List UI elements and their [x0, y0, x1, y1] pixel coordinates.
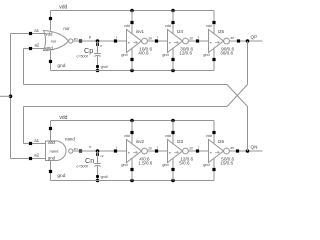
svg-text:n: n — [89, 144, 91, 149]
inverter inv1 W/L labels — [138, 46, 152, 55]
nand gnd stub wire — [49, 161, 52, 181]
inverter inv2 gnd stub — [130, 158, 133, 181]
junction dot bottom gnd rail at inv2 — [130, 179, 134, 183]
capacitor Cp top pin square — [96, 43, 102, 48]
inverter I26 input pin label — [210, 151, 220, 155]
svg-text:15/0.6: 15/0.6 — [220, 161, 233, 166]
svg-text:i: i — [116, 146, 117, 150]
net label zn (I23 out) — [189, 147, 193, 151]
svg-text:zn: zn — [148, 37, 152, 41]
inverter inv2 W/L labels — [138, 156, 152, 165]
inverter I26 body — [209, 140, 230, 163]
gnd pin square below Cn — [96, 175, 108, 179]
net label zn (nand out) — [74, 147, 78, 151]
net label zn (I24 out) — [189, 37, 193, 41]
inverter I24 body — [168, 30, 189, 53]
svg-text:vdd: vdd — [45, 31, 53, 36]
bottom vdd rail — [51, 120, 215, 122]
wire a1 to nand — [32, 143, 46, 145]
junction dot top gnd rail at I24 — [171, 69, 175, 73]
junction dot bottom vdd rail at I23 — [171, 119, 175, 123]
inverter I25 gnd pin label — [203, 53, 209, 57]
junction dot bottom gnd rail at I23 — [171, 179, 175, 183]
inverter I26 W/L labels — [220, 156, 234, 165]
svg-text:vdd: vdd — [165, 24, 171, 28]
nor gate inside pin text vdd — [45, 31, 53, 36]
wire nor out to inv1 — [73, 40, 127, 42]
svg-text:4/0.6: 4/0.6 — [138, 51, 149, 56]
inverter inv2 instance label — [136, 139, 145, 144]
inverter I23 gnd pin label — [162, 163, 168, 167]
svg-text:QP: QP — [251, 34, 258, 39]
inverter I25 W/L labels — [220, 46, 234, 55]
wire inv1 to I24 — [147, 40, 167, 42]
inverter I25 instance label — [218, 29, 225, 34]
junction dot gnd rail at Cp — [96, 69, 100, 73]
nand gate body — [46, 141, 67, 161]
wire a1 to nor — [32, 33, 47, 35]
svg-text:zn: zn — [148, 147, 152, 151]
inverter inv2 vdd pin label — [124, 134, 130, 138]
wire Cn to gnd — [97, 166, 99, 181]
feedback wire upper horizontal — [24, 84, 228, 86]
svg-text:12/0.6: 12/0.6 — [179, 51, 192, 56]
nor gate inside text nor — [51, 39, 57, 44]
svg-text:vdd: vdd — [206, 134, 212, 138]
pin a1 (top) — [29, 28, 40, 35]
wire Cp to gnd — [97, 56, 99, 71]
I25 output pin square — [237, 39, 240, 42]
svg-text:vdd: vdd — [124, 134, 130, 138]
wire I26 out to QN — [229, 150, 262, 152]
inverter inv1 gnd pin label — [121, 53, 127, 57]
feedback crossover diagonal B — [227, 85, 248, 107]
wire a2 left — [24, 48, 30, 50]
svg-text:nand: nand — [50, 148, 59, 153]
net label p — [89, 34, 92, 39]
wire node n down to Cn — [97, 151, 99, 164]
svg-text:5/0.6: 5/0.6 — [179, 161, 190, 166]
input stub left end — [0, 0, 1, 1]
wire QN rise — [247, 107, 249, 152]
inverter I26 vdd pin label — [206, 134, 212, 138]
svg-text:c=500f: c=500f — [77, 54, 89, 58]
net label QN — [251, 144, 258, 149]
svg-text:nor: nor — [63, 26, 70, 31]
I23 input pin square — [155, 146, 158, 153]
svg-text:i: i — [198, 146, 199, 150]
inverter inv2 input pin label — [128, 151, 138, 155]
svg-text:zn: zn — [230, 146, 234, 150]
nand gate output bubble — [69, 149, 73, 153]
wire a1 left — [11, 33, 30, 35]
svg-text:I23: I23 — [177, 139, 184, 144]
left shared net vertical — [10, 34, 12, 159]
inverter I25 gnd stub — [212, 48, 215, 71]
top vdd rail — [51, 10, 215, 12]
inverter I23 W/L labels — [179, 156, 193, 165]
svg-text:nor: nor — [51, 39, 57, 44]
svg-text:n2: n2 — [100, 154, 104, 158]
svg-text:gnd: gnd — [203, 53, 209, 57]
nor output pin square — [79, 39, 82, 42]
svg-text:nand: nand — [65, 137, 75, 142]
inverter I23 vdd stub — [171, 121, 174, 145]
inverter I23 body — [168, 140, 189, 163]
nand gate inside pin text vdd — [48, 140, 56, 145]
net label zn (inv2 out) — [148, 147, 152, 151]
junction dot bottom vdd rail at inv2 — [130, 119, 134, 123]
svg-text:gnd: gnd — [57, 173, 65, 179]
inverter I24 vdd stub — [171, 11, 174, 35]
svg-text:vdd: vdd — [206, 24, 212, 28]
wire I24 to I25 — [188, 40, 208, 42]
wire a2 left (bottom) — [11, 158, 30, 160]
nor gate body — [44, 31, 69, 51]
net label zn (I25 out) — [230, 36, 234, 40]
inverter I23 vdd pin label — [165, 134, 171, 138]
svg-text:a1: a1 — [34, 28, 39, 33]
nor vdd stub wire — [49, 11, 52, 31]
wire I25 out to QP — [229, 40, 262, 42]
svg-text:gnd: gnd — [162, 53, 168, 57]
svg-text:1.5/0.6: 1.5/0.6 — [138, 161, 152, 166]
svg-text:zn: zn — [74, 147, 78, 151]
inverter inv2 vdd stub — [130, 121, 133, 145]
svg-text:zn: zn — [189, 37, 193, 41]
inverter inv1 body — [127, 30, 148, 53]
I24 input pin square — [155, 36, 158, 43]
capacitor Cp plates — [94, 54, 101, 57]
inverter I26 gnd stub — [212, 158, 215, 181]
net label zn (inv1 out) — [148, 37, 152, 41]
node QN junction dot — [246, 149, 250, 153]
wire a2 riser — [23, 49, 25, 85]
wire a2 to nor — [32, 48, 47, 50]
svg-text:in: in — [210, 151, 213, 155]
inverter I24 W/L labels — [179, 46, 193, 55]
inverter inv1 instance label — [136, 29, 145, 34]
wire a1 left (bottom) — [24, 143, 30, 145]
svg-text:QN: QN — [251, 144, 258, 149]
wire I23 to I26 — [188, 150, 208, 152]
wire QP drop — [247, 41, 249, 85]
inverter I24 instance label — [177, 29, 184, 34]
I25 input pin square — [196, 36, 199, 43]
svg-text:i: i — [157, 146, 158, 150]
I26 output pin square — [236, 149, 239, 152]
inv1 input pin square — [114, 36, 117, 43]
svg-text:gnd: gnd — [45, 45, 53, 50]
nand gate instance label — [65, 137, 75, 142]
svg-text:I24: I24 — [177, 29, 184, 34]
svg-text:gnd: gnd — [121, 163, 127, 167]
inverter I23 gnd stub — [171, 158, 174, 181]
inverter I24 vdd pin label — [165, 24, 171, 28]
svg-text:gnd: gnd — [203, 163, 209, 167]
svg-text:gnd: gnd — [162, 163, 168, 167]
net label zn (I26 out) — [230, 146, 234, 150]
inverter I26 instance label — [218, 139, 225, 144]
junction dot left net — [9, 95, 13, 99]
svg-text:gnd!: gnd! — [101, 175, 108, 179]
svg-text:gnd: gnd — [57, 63, 65, 69]
svg-text:c=500f: c=500f — [77, 164, 89, 168]
svg-text:vdd: vdd — [59, 115, 67, 121]
net label zn (nor out) — [74, 37, 78, 41]
inverter inv1 vdd pin label — [124, 24, 130, 28]
nor gate instance label — [63, 26, 70, 31]
svg-text:vdd: vdd — [124, 24, 130, 28]
node n junction dot — [96, 149, 100, 153]
pin a1 (bottom) — [29, 138, 40, 145]
capacitor Cn value label c=500f — [77, 164, 89, 168]
inverter inv2 gnd pin label — [121, 163, 127, 167]
net label vdd (top rail) — [59, 5, 67, 11]
nand vdd stub wire — [49, 121, 52, 142]
net label vdd (bottom rail) — [59, 115, 67, 121]
node QP junction dot — [246, 39, 250, 43]
nor gate output bubble — [69, 39, 73, 43]
svg-text:in: in — [128, 41, 131, 45]
net label QP — [251, 34, 258, 39]
inverter inv1 vdd stub — [130, 11, 133, 35]
pin a2 (top) — [29, 43, 40, 51]
svg-text:in: in — [128, 151, 131, 155]
svg-text:vdd: vdd — [59, 5, 67, 11]
junction dot top gnd rail at inv1 — [130, 69, 134, 73]
wire node p down to Cp — [97, 41, 99, 54]
svg-text:vdd: vdd — [48, 140, 56, 145]
junction dot gnd rail at Cn — [96, 179, 100, 183]
svg-text:zn: zn — [230, 36, 234, 40]
svg-text:in: in — [210, 41, 213, 45]
I26 input pin square — [196, 146, 199, 153]
bottom gnd rail — [51, 180, 215, 182]
net label gnd (bottom rail) — [57, 173, 65, 179]
svg-text:I25: I25 — [218, 29, 225, 34]
nand gate inside text nand — [50, 148, 59, 153]
inv2 input pin square — [114, 146, 117, 153]
inverter I25 body — [209, 30, 230, 53]
inverter I24 gnd stub — [171, 48, 174, 71]
svg-text:I26: I26 — [218, 139, 225, 144]
svg-text:gnd: gnd — [48, 155, 56, 160]
input stub wire at left edge — [0, 95, 11, 97]
node p junction dot — [96, 39, 100, 43]
svg-text:i: i — [198, 36, 199, 40]
capacitor Cn top pin square — [96, 153, 104, 158]
gnd pin square below Cp — [96, 65, 108, 69]
pin a2 (bottom) — [29, 153, 40, 160]
svg-text:vdd: vdd — [165, 134, 171, 138]
svg-text:in: in — [169, 41, 172, 45]
inverter I23 instance label — [177, 139, 184, 144]
top gnd rail — [51, 70, 215, 72]
inverter I26 vdd stub — [212, 121, 215, 145]
svg-text:p: p — [89, 34, 92, 39]
net label gnd (top rail) — [57, 63, 65, 69]
nor gnd stub wire — [49, 51, 52, 71]
svg-text:zn: zn — [74, 37, 78, 41]
svg-text:inv1: inv1 — [136, 29, 145, 34]
capacitor Cp value label c=500f — [77, 54, 89, 58]
svg-text:a2: a2 — [34, 153, 39, 158]
svg-text:a2: a2 — [35, 43, 40, 48]
nor gate inside pin text gnd — [45, 45, 53, 50]
svg-text:P: P — [100, 44, 102, 48]
inverter inv1 gnd stub — [130, 48, 133, 71]
inverter I25 input pin label — [210, 41, 220, 45]
inverter I25 vdd stub — [212, 11, 215, 35]
inverter I26 gnd pin label — [203, 163, 209, 167]
feedback wire lower horizontal — [24, 106, 228, 108]
net label n — [89, 144, 91, 149]
junction dot top vdd rail at I24 — [171, 9, 175, 13]
inverter I23 input pin label — [169, 151, 179, 155]
feedback crossover diagonal A — [227, 85, 248, 107]
svg-text:36/0.6: 36/0.6 — [220, 51, 233, 56]
capacitor Cn label — [85, 156, 94, 165]
svg-text:inv2: inv2 — [136, 139, 145, 144]
nand output pin square — [79, 149, 82, 152]
svg-text:gnd!: gnd! — [101, 65, 108, 69]
capacitor Cp label — [84, 46, 93, 55]
svg-text:gnd: gnd — [121, 53, 127, 57]
inverter inv1 input pin label — [128, 41, 138, 45]
svg-text:a1: a1 — [34, 138, 39, 143]
inverter I25 vdd pin label — [206, 24, 212, 28]
nand gate inside pin text gnd — [48, 155, 56, 160]
wire a2 to nand — [32, 158, 46, 160]
inverter I24 gnd pin label — [162, 53, 168, 57]
svg-text:zn: zn — [189, 147, 193, 151]
capacitor Cn plates — [94, 164, 101, 167]
svg-text:i: i — [157, 36, 158, 40]
svg-text:i: i — [116, 36, 117, 40]
inverter I24 input pin label — [169, 41, 179, 45]
inverter inv2 body — [127, 140, 148, 163]
svg-text:in: in — [169, 151, 172, 155]
wire a1 riser (bottom) — [23, 107, 25, 144]
junction dot top vdd rail at inv1 — [130, 9, 134, 13]
wire inv2 to I23 — [147, 150, 167, 152]
wire nand out to inv2 — [73, 150, 127, 152]
